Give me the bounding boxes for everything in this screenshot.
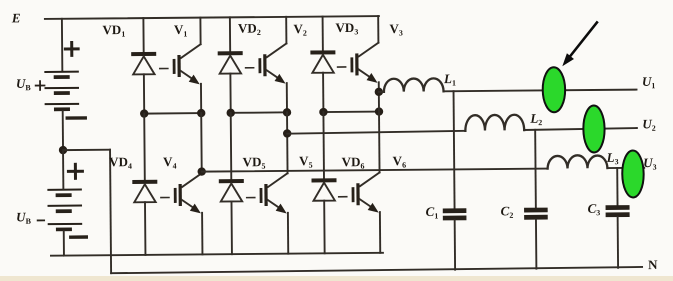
transistor V3 (IGBT) xyxy=(337,16,379,92)
wire: leg1 vertical V1 to V4 collector xyxy=(200,113,203,173)
capacitor C2 xyxy=(524,208,548,220)
node: phase V tap (leg2 to L2) xyxy=(283,129,291,137)
wire: midpoint drop to neutral xyxy=(110,150,111,273)
plus sign of GB2 xyxy=(68,164,82,178)
highlight ellipse on U3 line xyxy=(622,150,644,197)
small plus of upper source polarity xyxy=(36,81,45,90)
minus sign of GB2 xyxy=(71,235,86,239)
highlight ellipse on U2 line xyxy=(583,105,605,152)
scan edge tint bottom xyxy=(0,276,673,281)
wire: neutral rail N xyxy=(111,267,642,273)
node: phase U tap (leg3 to L1) xyxy=(375,88,383,96)
wire: GB2 bottom lead xyxy=(63,231,65,255)
transistor V2 (IGBT) xyxy=(245,17,287,113)
transistor V1 (IGBT) xyxy=(159,18,201,114)
wire: battery top lead xyxy=(61,19,63,71)
wire: phase line into L1 xyxy=(379,91,384,93)
wire: leg2 vertical to VD5 xyxy=(230,113,233,179)
wire: phase bus leg3 xyxy=(323,111,379,113)
wire: U2 output line xyxy=(524,128,637,130)
diode VD4 xyxy=(132,180,158,255)
wire: C1 bottom lead xyxy=(454,220,456,269)
wire: U1 output line xyxy=(444,90,637,92)
capacitor C1 xyxy=(443,208,467,220)
wire: leg1 vertical to VD4 xyxy=(143,114,146,180)
transistor V5 (IGBT) xyxy=(247,173,289,254)
wire: leg2 vertical V2 to V5 collector xyxy=(286,112,289,173)
wire: phase line to L2 xyxy=(287,131,465,134)
node: junction V3 emitter xyxy=(375,107,383,115)
inductor L1 xyxy=(384,78,444,92)
wire: phase line to L3 xyxy=(202,169,548,172)
wire: C2 top lead xyxy=(534,130,537,208)
node: junction VD1 bottom xyxy=(140,109,148,117)
wire: GB2 top lead xyxy=(62,150,64,189)
wire: C2 bottom lead xyxy=(535,220,537,269)
wire: C1 top lead xyxy=(454,91,455,208)
svg-text:E: E xyxy=(11,10,21,25)
diode VD3 xyxy=(310,16,336,112)
node: junction VD3 bottom xyxy=(319,108,327,116)
battery GB2 (lower U_B) xyxy=(47,189,82,232)
highlight ellipse on U1 line xyxy=(543,67,566,112)
inductor L3 xyxy=(548,155,608,169)
wire: battery midpoint lead xyxy=(62,111,64,150)
capacitor C3 xyxy=(606,205,630,217)
transistor V4 (IGBT) xyxy=(161,173,203,255)
inductor L2 xyxy=(465,115,524,131)
diode VD1 xyxy=(131,18,157,114)
plus sign of GB1 xyxy=(65,42,78,55)
wire: phase bus leg2 xyxy=(231,111,287,113)
wire: U3 output line xyxy=(607,167,644,169)
svg-text:N: N xyxy=(648,257,658,272)
battery GB1 (upper U_B) xyxy=(44,71,79,112)
annotation arrow pointing at U1 highlight xyxy=(562,22,597,66)
wire: leg3 vertical V3 to V6 collector xyxy=(378,92,381,173)
node: junction VD2 bottom xyxy=(226,109,234,117)
small minus of lower source polarity xyxy=(38,219,44,221)
wire: midpoint horizontal run xyxy=(63,149,110,151)
node: DC midpoint junction xyxy=(59,146,67,154)
wire: positive DC rail from E xyxy=(45,16,379,19)
transistor V6 (IGBT) xyxy=(339,172,381,253)
wire: C3 bottom lead xyxy=(617,217,619,268)
wire: leg3 vertical to VD6 xyxy=(322,112,325,178)
wire: phase bus leg1 (VD1/V1 emitters) xyxy=(144,112,201,114)
minus sign of GB1 xyxy=(67,116,85,120)
diode VD2 xyxy=(217,17,243,113)
diode VD5 xyxy=(219,179,245,254)
node: junction V2 emitter xyxy=(283,108,291,116)
node: junction V1 emitter xyxy=(197,109,205,117)
node: phase W tap (leg1 to L3) xyxy=(197,167,205,175)
wire: C3 top lead xyxy=(616,168,618,205)
wire: negative DC rail xyxy=(51,253,383,256)
diode VD6 xyxy=(311,178,337,253)
